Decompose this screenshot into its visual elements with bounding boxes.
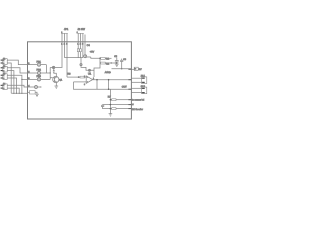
- wire R2 left down: [94, 63, 100, 77]
- svg-text:5V: 5V: [139, 68, 142, 71]
- minus input wire: [67, 76, 80, 78]
- wire emitter down: [55, 83, 57, 86]
- resistor R5 inline: [80, 76, 85, 78]
- svg-text:FB2: FB2: [37, 69, 42, 72]
- wire conn2 bottom to bus: [7, 71, 14, 94]
- svg-text:2: 2: [3, 87, 4, 90]
- svg-text:JP1: JP1: [64, 28, 69, 31]
- wire conn3 top: [7, 75, 27, 79]
- right testpoint TP3: [131, 67, 142, 71]
- connector J4: [1, 83, 8, 90]
- wire row1-row2 link: [46, 65, 48, 73]
- header J6 top: [77, 28, 86, 46]
- svg-text:OUT: OUT: [122, 85, 127, 88]
- capacitor C3 vertical: [53, 69, 56, 77]
- svg-text:3: 3: [84, 83, 85, 86]
- svg-text:J5 A: J5 A: [141, 75, 146, 78]
- resistor R4 vertical: [80, 42, 82, 58]
- resistor R8 row: [110, 99, 131, 101]
- svg-text:2: 2: [3, 62, 4, 65]
- right block trunk: [109, 89, 111, 114]
- svg-text:AGND: AGND: [105, 71, 112, 74]
- sheet box: [28, 42, 132, 119]
- wire conn1 bottom to bus: [7, 63, 11, 93]
- bead L2 row2: [28, 69, 51, 75]
- exit wire y68.8: [112, 68, 132, 70]
- wire conn4 top: [7, 85, 27, 87]
- svg-text:+5V: +5V: [90, 51, 95, 54]
- wire base: [50, 77, 53, 79]
- wire header pin2 to bus: [64, 42, 66, 58]
- bus y57.6: [65, 57, 83, 59]
- resistor R3 vertical: [77, 42, 79, 58]
- svg-text:J2 SW: J2 SW: [78, 28, 86, 31]
- wire header pin3 deep to opamp minus: [66, 42, 68, 77]
- bead L4 row4 inside: [28, 85, 42, 88]
- connector J3: [1, 73, 8, 80]
- ground under Q1: [55, 86, 59, 88]
- wire bead rail: [50, 67, 61, 69]
- header J5 top: [61, 28, 69, 46]
- bead FB4: [52, 66, 54, 69]
- svg-text:C6: C6: [123, 58, 127, 61]
- bead branch to plus path: [80, 58, 94, 72]
- wire conn3 bottom to bus: [7, 78, 16, 93]
- svg-text:C4: C4: [87, 44, 91, 47]
- svg-text:R6: R6: [67, 73, 71, 76]
- plus input wire: [74, 81, 87, 83]
- svg-text:Q1: Q1: [59, 78, 63, 81]
- svg-text:2: 2: [3, 77, 4, 80]
- output wire: [93, 79, 132, 81]
- connector J2: [1, 65, 8, 73]
- middle row: [110, 104, 131, 106]
- connector J1: [1, 57, 8, 65]
- svg-text:FB1: FB1: [37, 60, 42, 63]
- cap C6 polarized: [84, 42, 91, 58]
- svg-text:C5: C5: [114, 55, 118, 58]
- svg-text:R7: R7: [108, 96, 112, 99]
- right connector K3: [131, 85, 146, 94]
- wire to 5V rail: [91, 57, 100, 58]
- bead L1 row1: [28, 60, 47, 66]
- pin stubs right edge: [128, 69, 131, 70]
- transistor Q1: [53, 76, 63, 82]
- cap C8 top right: [120, 58, 127, 69]
- junction C6/exit wire: [121, 68, 122, 69]
- junction R2/C5: [116, 62, 117, 63]
- svg-text:I2C header: I2C header: [132, 108, 143, 111]
- svg-text:J6 B: J6 B: [141, 85, 146, 88]
- cap C5 stack with ground: [114, 55, 119, 67]
- svg-text:w: w: [132, 103, 134, 106]
- wire pin3 h2: [82, 42, 84, 58]
- drop to lower rail: [108, 80, 110, 90]
- wire conn4 bottom to bus: [7, 88, 19, 93]
- resistor R9 row: [110, 108, 131, 110]
- svg-text:FB3: FB3: [37, 75, 42, 78]
- svg-text:2: 2: [3, 70, 4, 73]
- bead L3 row3: [28, 75, 51, 81]
- opamp U1: [84, 73, 94, 86]
- svg-text:U1: U1: [88, 73, 92, 76]
- cap C9 branch: [101, 105, 110, 109]
- wire conn2 top: [7, 68, 27, 73]
- vertical to base/row3: [49, 68, 51, 80]
- resistor R2: [100, 58, 117, 65]
- svg-text:to sensor bd: to sensor bd: [132, 98, 145, 101]
- right connector K2: [131, 75, 146, 84]
- resistor R1: [101, 57, 112, 60]
- bottom left inside: bus entry: [28, 91, 30, 93]
- wire conn1 top: [7, 60, 27, 65]
- ground under trunk: [109, 114, 113, 116]
- wire header pin1 down to bead rail: [60, 42, 63, 68]
- feedback loop + lower rail: [74, 80, 98, 90]
- junction dot: [99, 58, 101, 60]
- bus bottom: [11, 92, 27, 94]
